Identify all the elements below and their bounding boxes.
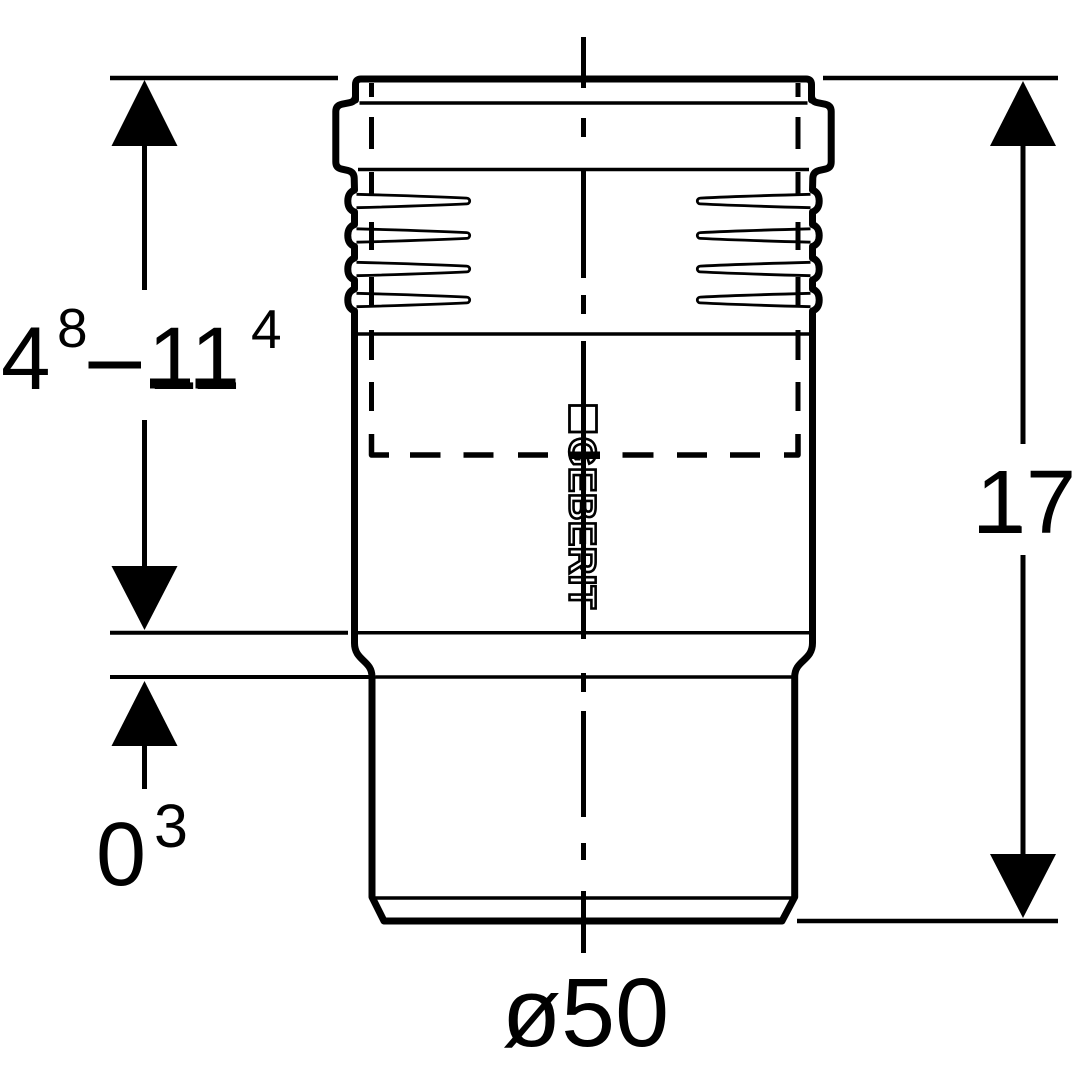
svg-text:17: 17 — [976, 453, 1076, 553]
svg-text:11: 11 — [148, 308, 240, 408]
svg-text:4: 4 — [251, 298, 282, 360]
svg-text:0: 0 — [96, 805, 146, 905]
svg-text:ø50: ø50 — [502, 958, 669, 1067]
svg-text:8: 8 — [57, 297, 88, 359]
svg-text:4: 4 — [1, 308, 51, 408]
svg-text:3: 3 — [154, 792, 188, 860]
